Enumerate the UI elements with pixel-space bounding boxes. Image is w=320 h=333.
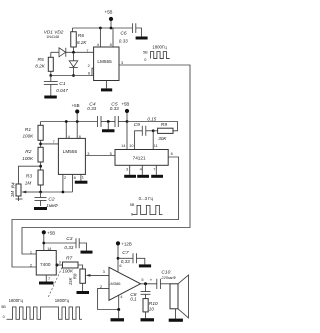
wire U1 output to 7400 pin1 <box>22 65 190 254</box>
svg-text:+: + <box>150 277 153 282</box>
supply +5B (top) <box>99 9 113 29</box>
svg-text:2: 2 <box>100 284 102 289</box>
ground (U4 pin7) <box>39 282 54 285</box>
supply +5B (74121) <box>121 101 129 123</box>
svg-text:11: 11 <box>154 144 158 148</box>
svg-text:0.047: 0.047 <box>56 88 68 93</box>
wire to U2 pin 7 <box>41 139 59 144</box>
svg-text:C9: C9 <box>134 122 141 128</box>
svg-text:C7: C7 <box>122 250 129 256</box>
svg-text:5B: 5B <box>130 203 135 207</box>
svg-text:C2: C2 <box>48 197 55 203</box>
supply +5B (U2) <box>72 103 80 121</box>
svg-text:10: 10 <box>149 307 155 312</box>
pin 1 U2 <box>81 174 84 180</box>
pin 1 U1 <box>105 81 107 89</box>
pin 8 U1 <box>110 28 113 47</box>
svg-text:1800Гц: 1800Гц <box>152 45 167 50</box>
svg-text:30K: 30K <box>158 136 167 141</box>
pin 3 U3 <box>126 165 130 175</box>
svg-text:R8: R8 <box>73 273 78 279</box>
node VD1/R6 junction <box>72 51 75 54</box>
svg-text:+5B: +5B <box>105 9 113 14</box>
svg-text:8: 8 <box>110 42 112 47</box>
svg-text:8: 8 <box>79 134 81 139</box>
supply +12B (U5) <box>116 241 132 246</box>
resistor R9 <box>153 122 173 141</box>
ground (U3 pin7) <box>151 175 163 178</box>
svg-text:1800Гц: 1800Гц <box>9 298 24 303</box>
ground (R8) <box>77 291 90 294</box>
svg-text:0,1: 0,1 <box>130 297 137 302</box>
pin 2 U5 <box>98 284 119 310</box>
waveform 1800Hz (top) <box>143 45 170 62</box>
IC U3 74121 <box>115 150 168 166</box>
ground (U1) <box>101 88 112 91</box>
node R2/R3 <box>39 165 42 168</box>
svg-text:3: 3 <box>121 60 123 65</box>
svg-text:7: 7 <box>48 276 50 281</box>
mechanical link (dashed) <box>48 268 62 298</box>
pin 7 U4 <box>46 275 50 282</box>
capacitor C5 <box>110 101 119 127</box>
svg-text:+5B: +5B <box>47 231 55 236</box>
waveform 1800Hz bursts (bottom) <box>1 298 82 320</box>
svg-text:5: 5 <box>141 277 143 282</box>
ground (C2) <box>34 207 47 210</box>
ground (C3) <box>81 251 93 254</box>
wire threshold/trigger <box>51 68 94 75</box>
pin 6 U5 <box>117 245 122 272</box>
svg-text:1: 1 <box>30 250 32 255</box>
svg-text:14: 14 <box>121 144 125 148</box>
svg-text:0.33: 0.33 <box>119 39 128 44</box>
svg-text:C1: C1 <box>59 81 66 87</box>
svg-text:1: 1 <box>82 175 84 180</box>
svg-text:LM555: LM555 <box>97 59 112 64</box>
svg-text:VD1 VD2: VD1 VD2 <box>44 29 64 34</box>
svg-text:LM386: LM386 <box>108 281 121 286</box>
resistor R5 <box>35 52 53 77</box>
ground (U3 pin3) <box>124 175 136 178</box>
svg-text:R7: R7 <box>66 256 73 262</box>
wiper arrow R8 to U5 pin3 <box>86 274 109 277</box>
svg-text:100K: 100K <box>23 133 35 138</box>
capacitor C3 <box>44 236 87 251</box>
svg-text:R4: R4 <box>11 182 16 188</box>
svg-text:0,33: 0,33 <box>121 259 130 264</box>
svg-text:1800Гц: 1800Гц <box>55 298 70 303</box>
svg-text:3: 3 <box>103 269 105 274</box>
wire node to R4 top <box>19 166 41 184</box>
speaker BA1 <box>170 275 189 319</box>
svg-text:+5B: +5B <box>72 103 80 108</box>
svg-text:3: 3 <box>87 151 89 156</box>
svg-text:7: 7 <box>53 139 55 144</box>
resistor R10 <box>143 299 158 319</box>
svg-text:7: 7 <box>86 48 88 53</box>
svg-text:5B: 5B <box>1 305 6 309</box>
svg-text:6: 6 <box>74 175 76 180</box>
svg-text:2: 2 <box>64 175 66 180</box>
capacitor C7 <box>118 250 145 264</box>
pin 6 U2 <box>73 174 76 192</box>
diode VD1 <box>44 29 94 56</box>
svg-text:C6: C6 <box>120 31 127 37</box>
svg-text:100K: 100K <box>22 156 34 161</box>
svg-text:1M: 1M <box>10 191 15 198</box>
wire +5B to R9 <box>127 122 178 131</box>
capacitor C8 <box>130 284 150 302</box>
svg-text:7400: 7400 <box>40 262 51 267</box>
potentiometer R8 <box>68 269 85 291</box>
ground (R10) <box>141 318 155 321</box>
pin 7 U3 <box>153 165 156 175</box>
pin 14 U3 <box>121 122 127 150</box>
resistor R1 <box>23 125 44 147</box>
svg-text:0: 0 <box>144 58 146 62</box>
svg-text:0,33: 0,33 <box>64 245 73 250</box>
resistor R6 <box>71 32 88 53</box>
svg-text:15K: 15K <box>68 276 73 285</box>
capacitor C4 <box>87 101 101 127</box>
op-amp U1 LM555 (timer) <box>94 47 119 81</box>
svg-text:8.2K: 8.2K <box>77 40 87 45</box>
pin 3 U2 output wire <box>85 151 115 156</box>
svg-text:2: 2 <box>88 63 90 68</box>
svg-text:8.2K: 8.2K <box>35 64 45 69</box>
svg-text:5: 5 <box>110 151 112 156</box>
svg-text:R9: R9 <box>161 122 168 128</box>
pin 4 U2 <box>65 120 71 139</box>
svg-text:7: 7 <box>153 168 155 172</box>
svg-text:5B: 5B <box>143 50 148 54</box>
svg-text:0.15: 0.15 <box>147 117 156 122</box>
svg-text:1N4148: 1N4148 <box>46 35 59 39</box>
capacitor C10 (electrolytic) <box>150 270 177 289</box>
pin 6 U3 output wire to 7400 pin2 <box>12 151 179 267</box>
+5B rail (middle) <box>41 122 128 126</box>
svg-text:3: 3 <box>59 259 61 264</box>
capacitor C2 <box>35 192 59 208</box>
resistor R2 <box>22 147 43 170</box>
svg-text:R3: R3 <box>26 174 33 180</box>
op-amp U5 LM386 <box>108 267 140 300</box>
ground (U3 pin4) <box>137 175 149 178</box>
diode VD2 <box>69 52 78 77</box>
svg-text:R5: R5 <box>38 57 45 63</box>
svg-text:C3: C3 <box>66 236 73 242</box>
svg-text:4: 4 <box>140 168 142 172</box>
svg-text:0.33: 0.33 <box>87 106 96 111</box>
+5B rail top <box>73 28 133 32</box>
resistor R7 <box>62 256 82 274</box>
resistor R3 <box>25 170 43 192</box>
supply +5B (7400) <box>42 230 56 250</box>
svg-text:220мкФ: 220мкФ <box>160 275 176 280</box>
pin 2 U2 <box>62 174 67 193</box>
svg-text:2: 2 <box>30 263 32 268</box>
svg-text:1M: 1M <box>25 181 32 186</box>
ground (C6) <box>136 37 148 40</box>
svg-text:+5B: +5B <box>121 101 129 106</box>
ground (C7) <box>139 264 151 267</box>
svg-text:10: 10 <box>129 144 133 148</box>
wiper arrow R4 <box>21 191 40 194</box>
op-amp U2 LM555 (timer) <box>58 138 85 174</box>
wire bottom node to U2 pins 2,6 <box>41 191 73 193</box>
IC U4 7400 <box>36 251 56 276</box>
svg-text:0: 0 <box>3 315 5 319</box>
svg-text:R2: R2 <box>25 149 32 155</box>
ground (C1) <box>44 96 57 99</box>
ground (speaker) <box>169 319 183 322</box>
pin 4 U5 <box>117 294 123 318</box>
svg-text:0.33: 0.33 <box>110 106 119 111</box>
node R3 bottom <box>39 191 42 194</box>
svg-text:74121: 74121 <box>133 156 146 161</box>
pin 4 U3 <box>140 165 143 175</box>
capacitor C9 <box>134 122 154 149</box>
svg-text:LM555: LM555 <box>63 149 78 154</box>
waveform 0..3Hz <box>130 196 163 217</box>
node R1/R2 <box>39 143 42 146</box>
pin 4 U1 <box>97 28 101 47</box>
pin 3 U4 output <box>56 259 63 266</box>
svg-text:0...3 Гц: 0...3 Гц <box>139 196 154 201</box>
ground (C4/C5) <box>102 120 115 132</box>
pin 11 U3 <box>153 131 158 150</box>
svg-text:3: 3 <box>126 168 128 172</box>
pin 5 U5 output <box>141 277 157 286</box>
svg-text:6: 6 <box>88 71 90 76</box>
svg-text:100K: 100K <box>62 269 74 274</box>
svg-text:6: 6 <box>171 151 173 156</box>
potentiometer R4 <box>10 182 22 201</box>
ground (U2 pin1) <box>75 181 88 184</box>
svg-text:R6: R6 <box>78 33 85 39</box>
capacitor C6 <box>119 23 142 43</box>
svg-text:1мкФ: 1мкФ <box>46 203 58 208</box>
pin 8 U2 <box>76 120 81 139</box>
node C9/R9 <box>152 129 155 132</box>
svg-text:+12B: +12B <box>121 242 131 247</box>
capacitor C1 <box>44 76 68 96</box>
svg-text:R1: R1 <box>25 127 32 133</box>
ground (U5 pin4) <box>111 318 125 321</box>
